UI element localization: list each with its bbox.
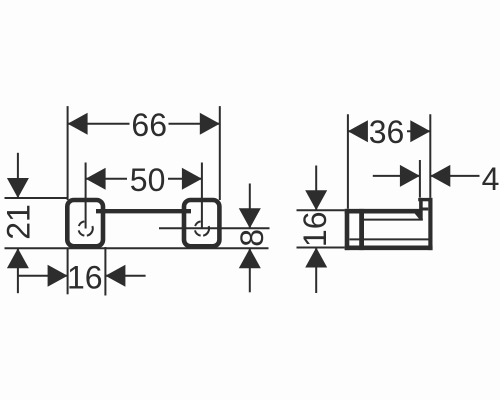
66 left arrow — [68, 113, 88, 135]
left hook square — [67, 200, 103, 246]
36-dim right extension line / 4-dim right extension — [429, 114, 431, 198]
16 top arrow (pointing down) — [305, 190, 327, 210]
svg-text:66: 66 — [131, 107, 167, 143]
16-dim (front) left vertical extension line — [67, 248, 69, 294]
svg-text:8: 8 — [234, 229, 270, 247]
36-dim left extension line — [347, 114, 349, 209]
4 left arrow (pointing right) — [400, 165, 420, 187]
16-dim (front) right vertical extension line — [104, 247, 106, 296]
66 right arrow — [200, 113, 220, 135]
right hook dashed circle — [195, 221, 209, 235]
36 right arrow — [410, 120, 430, 142]
tab left stroke — [419, 198, 423, 220]
16-dim (side) bottom extension line — [297, 247, 345, 249]
50-dim right extension line (to right hook centre) — [201, 163, 203, 229]
16 right arrow (pointing left) — [105, 265, 125, 287]
36 left arrow — [348, 120, 368, 142]
16 left arrow (pointing right) — [48, 265, 68, 287]
16-dim (side) top extension line — [297, 209, 345, 211]
side body left edge — [345, 209, 350, 250]
svg-text:16: 16 — [297, 212, 333, 248]
16 dimension line top segment — [315, 166, 317, 211]
4 dimension line right tail — [430, 175, 479, 177]
21 bottom arrow (pointing up) — [7, 248, 29, 268]
66 dimension line — [68, 123, 130, 125]
svg-text:50: 50 — [130, 162, 166, 198]
21 dimension line top segment — [17, 153, 19, 198]
50 left arrow — [86, 168, 106, 190]
arm inner bottom thin line — [350, 238, 430, 240]
svg-text:36: 36 — [369, 114, 405, 150]
svg-text:21: 21 — [0, 204, 36, 240]
tab top stroke — [418, 198, 432, 201]
21 dimension line bottom segment — [17, 248, 19, 293]
bar bottom edge / 8-dim top extension line — [159, 227, 270, 229]
4 dimension line left tail — [373, 175, 420, 177]
36 dimension line — [348, 130, 366, 132]
8 bottom arrow (pointing up) — [239, 248, 261, 268]
arm inner top thin line — [364, 219, 423, 221]
4 right arrow (pointing left) — [430, 165, 450, 187]
50-dim left extension line (to left hook centre) — [85, 163, 87, 229]
4-dim left extension line — [419, 160, 421, 198]
svg-text:4: 4 — [482, 161, 500, 197]
16 dimension line bottom segment — [315, 248, 317, 294]
16 dimension line right tail — [105, 275, 145, 277]
21-dim top extension line — [5, 197, 68, 199]
tab hole bottom stroke — [421, 208, 428, 211]
8 dimension line top segment — [249, 184, 251, 229]
8 top arrow (pointing down) — [239, 208, 261, 228]
50 dimension line — [86, 178, 127, 180]
side body bottom edge — [345, 246, 433, 251]
side body right edge — [428, 198, 432, 250]
8 dimension line bottom segment — [249, 248, 251, 292]
bar top edge — [96, 209, 191, 213]
left hook dashed circle — [79, 221, 93, 235]
wall plate inner vertical line — [359, 209, 364, 250]
66-dim right extension line — [219, 106, 221, 200]
16 dimension line left tail — [18, 275, 68, 277]
bottom extension line (21-dim bottom / 8-dim bottom, long) — [5, 247, 269, 249]
svg-text:16: 16 — [67, 259, 103, 295]
tip wedge (sloped top face end) — [415, 213, 420, 219]
right hook square — [184, 200, 219, 246]
66-dim left extension line — [67, 106, 69, 200]
16 bottom arrow (pointing up) — [305, 248, 327, 268]
50 right arrow — [182, 168, 202, 190]
21 top arrow (pointing down) — [7, 178, 29, 198]
side body top edge — [345, 209, 420, 214]
